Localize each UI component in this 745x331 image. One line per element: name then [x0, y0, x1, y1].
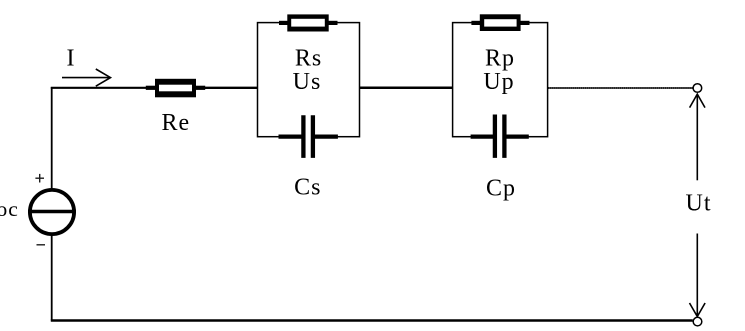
terminal top: [693, 84, 702, 93]
label Rs Us: [293, 46, 323, 95]
current label I: [67, 46, 75, 72]
current arrow: [62, 69, 111, 86]
minus sign: [37, 244, 46, 246]
RC block 2 outline: [453, 23, 548, 137]
svg-text:Ut: Ut: [686, 191, 712, 217]
svg-text:Us: Us: [293, 69, 322, 95]
resistor Rs: [279, 14, 338, 31]
wire left vertical top: [51, 87, 53, 191]
svg-text:Cp: Cp: [486, 175, 516, 201]
label Rp Up: [483, 46, 515, 95]
wire bottom horizontal: [51, 319, 693, 322]
capacitor Cp: [471, 115, 529, 158]
arrow Ut lower: [690, 234, 706, 317]
svg-text:Up: Up: [483, 69, 514, 95]
wire block1 to block2: [360, 87, 454, 90]
label Uoc: [0, 197, 19, 221]
plus sign: [35, 174, 44, 183]
dotted wire block2 to terminal: [548, 87, 692, 89]
wire Re to block1: [205, 87, 258, 89]
terminal bottom: [693, 317, 702, 326]
label Ut: [686, 191, 712, 217]
svg-text:Re: Re: [162, 110, 191, 136]
capacitor Cs: [279, 115, 338, 158]
svg-text:Rs: Rs: [295, 46, 322, 72]
svg-text:Rp: Rp: [485, 46, 515, 72]
svg-text:Uoc: Uoc: [0, 197, 19, 221]
svg-text:I: I: [67, 46, 75, 72]
wire from source corner to Re: [51, 87, 147, 89]
svg-text:Cs: Cs: [294, 174, 321, 200]
label Cs: [294, 174, 321, 200]
resistor Re: [146, 79, 205, 98]
label Re: [162, 110, 191, 136]
arrow Ut upper: [690, 94, 705, 180]
RC block 1 outline: [258, 23, 360, 137]
wire left vertical bottom: [51, 234, 53, 321]
label Cp: [486, 175, 516, 201]
resistor Rp: [471, 14, 529, 31]
voltage source Uoc: [28, 190, 76, 234]
